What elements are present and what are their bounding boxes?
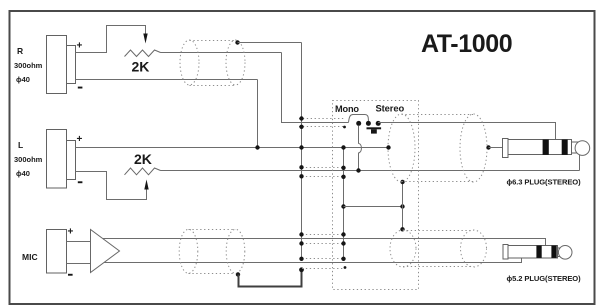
svg-text:ϕ5.2 PLUG(STEREO): ϕ5.2 PLUG(STEREO)	[507, 274, 582, 283]
junction dots on shield bus	[299, 116, 303, 120]
wire big cable shield drop	[402, 182, 404, 230]
switch linkage dashed lines	[299, 119, 345, 269]
junction big cable right	[486, 145, 490, 149]
plug 6.3 tip ball	[575, 141, 590, 156]
wire shield R to bus	[238, 42, 302, 44]
svg-text:ϕ40: ϕ40	[16, 169, 30, 178]
ring band 2 of 5.2 plug	[551, 246, 556, 258]
junction shield bus bottom	[299, 267, 304, 272]
cable shield 5.2 (dashed cylinder)	[390, 230, 487, 267]
switch slider bar	[367, 127, 382, 129]
cable shield R (dashed cylinder)	[180, 40, 245, 86]
wire L minus to pot wiper	[76, 172, 147, 200]
svg-text:ϕ6.3 PLUG(STEREO): ϕ6.3 PLUG(STEREO)	[507, 178, 582, 187]
junction Mono drop on L signal line	[356, 168, 360, 172]
switch enclosure (dashed box)	[333, 101, 419, 290]
mic amplifier triangle	[91, 230, 120, 273]
minus terminal MIC	[68, 274, 73, 276]
speaker L driver	[47, 130, 67, 189]
svg-text:MIC: MIC	[22, 252, 38, 262]
switch contact center	[366, 121, 371, 126]
wire L plus (long line to big cable)	[76, 147, 389, 149]
svg-text:+: +	[77, 41, 83, 52]
svg-text:+: +	[68, 227, 74, 238]
junction big cable shield	[400, 180, 404, 184]
wire big cable to 6.3 plug	[489, 147, 503, 149]
wire R minus	[76, 79, 258, 81]
plug 6.3 tip neck	[572, 141, 580, 143]
wire mid vertical bus	[343, 148, 345, 260]
wire MIC leads	[67, 241, 91, 243]
small dot end of linkage 268.5	[344, 266, 347, 269]
switch contact Mono	[356, 121, 361, 126]
wire R signal to right	[161, 52, 282, 54]
junction cross link right	[400, 204, 404, 208]
wire Stereo contact to 6.3 ring	[378, 123, 555, 140]
resistor 2K R (zigzag)	[125, 50, 161, 57]
junction shield tap MIC	[236, 272, 240, 276]
ring band 1 of 5.2 plug	[536, 246, 541, 258]
wire R signal drop	[282, 53, 349, 123]
svg-text:AT-1000: AT-1000	[421, 30, 512, 58]
wiper arrow L (points up)	[144, 180, 148, 190]
svg-text:300ohm: 300ohm	[14, 61, 43, 70]
plug 6.3 connector	[503, 139, 572, 158]
wire hump over Mono contact	[349, 115, 369, 123]
small dot end of linkage 127	[343, 126, 346, 129]
wire Mono contact drop with hop	[359, 126, 362, 171]
minus terminal L	[78, 181, 83, 183]
plug 5.2 tip ball	[558, 246, 572, 260]
svg-text:R: R	[17, 46, 23, 56]
wire R plus to pot wiper	[76, 26, 146, 53]
minus terminal R	[78, 87, 83, 89]
wire MIC minus long line to 5.2 plug sleeve	[104, 258, 522, 263]
junction bottom cable shield	[400, 227, 404, 231]
wire shield cross link	[344, 206, 403, 208]
cable shield MIC (dashed cylinder)	[179, 229, 245, 273]
wire MIC plus long line to 5.2 plug ring	[102, 239, 545, 246]
svg-text:2K: 2K	[134, 151, 152, 167]
junction R minus / L plus	[255, 145, 259, 149]
junction shield tap R	[235, 40, 239, 44]
ring band 2 of 6.3 plug	[562, 140, 568, 155]
resistor 2K L (zigzag)	[125, 168, 161, 175]
junction dots on mid bus	[341, 145, 345, 149]
ring band 1 of 6.3 plug	[543, 140, 549, 155]
wiper arrow R (points down)	[143, 34, 147, 44]
switch slider knob	[371, 129, 377, 133]
svg-text:ϕ40: ϕ40	[16, 75, 30, 84]
svg-text:300ohm: 300ohm	[14, 155, 43, 164]
plug 5.2 connector	[503, 245, 558, 259]
microphone MIC body	[47, 230, 67, 274]
svg-text:+: +	[77, 134, 83, 145]
wire shield bus vertical	[301, 43, 303, 260]
cable shield 6.3 (dashed cylinder)	[388, 114, 487, 182]
wire R minus drop joins L plus	[257, 80, 259, 148]
plug 5.2 tip neck	[558, 247, 562, 249]
wire riser to 6.3 tip	[579, 155, 581, 171]
junction big cable left	[386, 145, 390, 149]
wire L signal long line to 6.3 plug tip	[161, 170, 580, 172]
svg-text:L: L	[18, 140, 23, 150]
svg-text:2K: 2K	[132, 59, 150, 75]
wire shield MIC thick link	[239, 270, 302, 287]
speaker R driver	[47, 36, 67, 94]
switch contact Stereo	[376, 121, 381, 126]
svg-text:Stereo: Stereo	[376, 103, 405, 114]
svg-text:Mono: Mono	[335, 104, 359, 114]
